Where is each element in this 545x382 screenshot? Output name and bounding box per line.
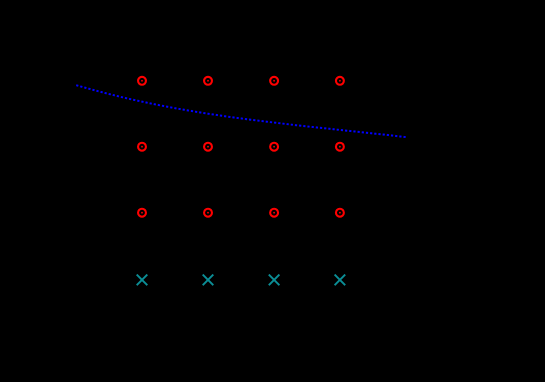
zero marker o row2 col3	[270, 143, 278, 151]
pole marker x col2	[203, 275, 214, 286]
zero marker o row1 col2	[204, 77, 212, 85]
pole marker x col1	[137, 275, 148, 286]
zero marker o row3 col3	[270, 209, 278, 217]
zero marker o row2 col4	[336, 143, 344, 151]
zero marker o row3 col2	[204, 209, 212, 217]
zero marker o row1 col1	[138, 77, 146, 85]
zero marker o row3 col4	[336, 209, 344, 217]
zero marker o row2 col2	[204, 143, 212, 151]
pole marker x col3	[269, 275, 280, 286]
pole marker x col4	[335, 275, 346, 286]
zero marker o row3 col1	[138, 209, 146, 217]
zero marker o row1 col3	[270, 77, 278, 85]
blue dotted curve	[76, 85, 406, 137]
zero marker o row2 col1	[138, 143, 146, 151]
zero marker o row1 col4	[336, 77, 344, 85]
